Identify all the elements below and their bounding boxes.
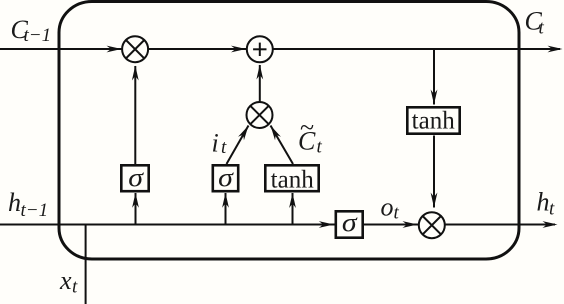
- svg-text:t: t: [394, 203, 400, 224]
- svg-text:tanh: tanh: [412, 108, 456, 135]
- svg-text:t: t: [221, 137, 227, 158]
- svg-text:i: i: [212, 129, 219, 158]
- svg-text:t: t: [317, 137, 323, 158]
- svg-text:h: h: [8, 188, 21, 217]
- svg-text:tanh: tanh: [271, 166, 315, 193]
- svg-text:t: t: [72, 277, 78, 298]
- svg-text:σ: σ: [128, 164, 144, 193]
- svg-text:t: t: [549, 199, 555, 220]
- svg-text:h: h: [537, 188, 550, 217]
- svg-text:t−1: t−1: [21, 200, 49, 221]
- svg-text:t: t: [539, 18, 545, 39]
- svg-text:o: o: [381, 193, 394, 222]
- svg-text:~: ~: [300, 113, 314, 142]
- svg-text:x: x: [59, 266, 72, 295]
- svg-text:σ: σ: [218, 164, 234, 193]
- svg-text:t−1: t−1: [24, 25, 52, 46]
- svg-text:σ: σ: [342, 209, 358, 238]
